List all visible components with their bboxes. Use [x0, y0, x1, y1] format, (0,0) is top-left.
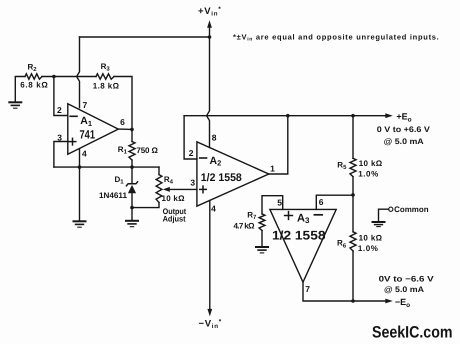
node R6/-Eo junction dot: [351, 299, 355, 303]
svg-text:*±Vin are equal and opposite u: *±Vin are equal and opposite unregulated…: [233, 32, 440, 42]
terminal Common circle: [389, 207, 393, 211]
svg-text:10 kΩ: 10 kΩ: [359, 233, 383, 242]
svg-text:SeekIC.com: SeekIC.com: [372, 324, 453, 342]
svg-text:−Eo: −Eo: [395, 297, 410, 309]
wire R7 bottom lead to ground: [261, 231, 263, 247]
node R5 top rail junction dot: [351, 114, 355, 118]
resistor R2: [25, 74, 42, 79]
resistor R6: [350, 232, 356, 251]
wire R1 bottom lead: [131, 160, 133, 167]
svg-text:R2: R2: [28, 62, 38, 73]
wire A1 bottom rail: [54, 166, 159, 168]
svg-text:R5: R5: [337, 161, 347, 172]
wire top rail from +Vin to A1 pin7 drop: [80, 36, 210, 38]
svg-text:A3: A3: [297, 212, 310, 225]
wire R2 left lead and drop to ground: [15, 77, 25, 102]
node D1/R4 bottom junction dot: [130, 206, 134, 210]
wire A2 feedback corner to pin 2: [184, 116, 197, 159]
ground below R7: [256, 247, 268, 253]
svg-text:3: 3: [57, 132, 62, 142]
wire R3 right lead to vertical: [114, 77, 132, 130]
node pin4 rail junction dot: [78, 165, 82, 169]
ground below A1 rail: [74, 221, 86, 227]
svg-text:741: 741: [80, 127, 96, 141]
svg-text:R4: R4: [164, 175, 174, 186]
svg-text:10 kΩ: 10 kΩ: [162, 194, 186, 203]
resistor R5: [350, 158, 356, 176]
node R5/R6/pin6 junction dot: [351, 193, 355, 197]
node rail/R1/D1 junction dot: [130, 165, 134, 169]
wire A1 output pin 6 to node: [118, 128, 132, 130]
wire +Eo output rail: [184, 115, 386, 117]
svg-text:4: 4: [211, 204, 216, 214]
svg-text:A1: A1: [80, 115, 92, 128]
terminal -Vin arrow: [207, 309, 212, 317]
wire Common to ground: [379, 209, 389, 221]
svg-text:Common: Common: [394, 205, 429, 214]
wire R2 to R3 segment: [42, 76, 96, 78]
resistor R3: [96, 74, 114, 79]
A3 plus sign: [285, 212, 293, 220]
wire A1 pin 4 vertical: [79, 149, 81, 167]
svg-text:1N4611: 1N4611: [99, 191, 128, 200]
node feedback/rail junction dot: [286, 114, 290, 118]
svg-text:Adjust: Adjust: [163, 215, 186, 224]
wire A1 inverting input pin 2: [54, 77, 68, 116]
svg-text:1.8 kΩ: 1.8 kΩ: [93, 82, 120, 91]
svg-text:6: 6: [120, 117, 125, 127]
wire R6 bottom lead: [352, 251, 354, 301]
resistor R7: [259, 214, 265, 231]
svg-text:R7: R7: [247, 210, 257, 221]
svg-text:1/2 1558: 1/2 1558: [201, 172, 242, 184]
svg-text:A2: A2: [210, 155, 222, 168]
svg-text:1/2 1558: 1/2 1558: [272, 228, 326, 242]
terminal +Eo arrow: [385, 113, 393, 118]
svg-text:+Vin*: +Vin*: [198, 6, 221, 18]
terminal +Vin arrow: [207, 20, 212, 37]
wire A3 output pin 7: [303, 282, 386, 301]
wire R4 bottom lead to D1 node: [132, 203, 159, 208]
svg-text:6.8 kΩ: 6.8 kΩ: [20, 81, 48, 90]
wire A2 pin 4 down to -Vin: [209, 200, 211, 309]
svg-text:−Vin*: −Vin*: [199, 318, 222, 330]
wire A2 output pin 1 feedback: [269, 116, 288, 174]
svg-text:2: 2: [57, 105, 62, 115]
svg-text:3: 3: [190, 177, 195, 187]
wire D1 cathode lead: [131, 167, 133, 183]
svg-text:R3: R3: [101, 62, 111, 73]
svg-text:@ 5.0 mA: @ 5.0 mA: [384, 137, 424, 146]
svg-text:@ 5.0 mA: @ 5.0 mA: [384, 285, 424, 294]
svg-text:R1: R1: [118, 145, 128, 156]
svg-text:1.0%: 1.0%: [358, 169, 378, 178]
ground below R2: [9, 102, 21, 108]
R4 wiper arrow: [163, 187, 170, 192]
svg-text:5: 5: [277, 198, 282, 208]
potentiometer R4: [156, 175, 162, 203]
svg-text:10 kΩ: 10 kΩ: [359, 159, 383, 168]
ground below Common: [373, 222, 385, 227]
wire R4 wiper to A2 pin 3: [166, 188, 197, 190]
terminal -Eo arrow: [385, 299, 393, 304]
svg-text:0 V to +6.6 V: 0 V to +6.6 V: [377, 125, 431, 134]
wire A3 pin 5 to R7: [262, 196, 283, 214]
svg-text:R6: R6: [337, 239, 347, 250]
svg-text:1.0%: 1.0%: [358, 244, 378, 253]
svg-text:7: 7: [305, 284, 310, 294]
op-amp A3 1/2 1558 triangle: [270, 209, 336, 282]
op-amp A2 1/2 1558 triangle: [197, 142, 269, 206]
A2 plus sign: [200, 186, 207, 193]
svg-text:2: 2: [189, 148, 194, 158]
node pin6/R3/R1 junction dot: [130, 128, 134, 132]
svg-text:750 Ω: 750 Ω: [136, 146, 158, 155]
wire A1 non-inverting input pin 3: [54, 142, 68, 168]
wire rail drop to ground: [79, 167, 81, 220]
node R2/R3/pin2 junction dot: [52, 75, 56, 79]
resistor R1: [129, 142, 135, 161]
A2 minus sign: [200, 157, 207, 159]
A3 minus sign: [314, 214, 322, 216]
wire R5 top lead: [352, 116, 354, 159]
wire R4 top lead from rail: [158, 167, 160, 175]
svg-text:8: 8: [212, 133, 217, 143]
wire R1 top lead: [131, 129, 133, 141]
A1 plus sign: [69, 138, 76, 145]
wire A3 pin 6 to divider node: [316, 195, 353, 209]
svg-text:7: 7: [83, 100, 88, 110]
svg-text:+Eo: +Eo: [396, 112, 411, 124]
wire A1 pin7 vertical with jog over R2/R3 line: [77, 37, 80, 108]
svg-text:4: 4: [82, 149, 87, 159]
wire +Vin vertical down to A2 pin8 with jog over +Eo rail: [207, 37, 210, 148]
node +Vin junction dot: [208, 35, 212, 39]
A1 minus sign: [70, 115, 77, 117]
diode D1 1N4611 zener: [126, 182, 137, 193]
wire R5 bottom lead to node: [352, 177, 354, 195]
svg-text:0V to −6.6 V: 0V to −6.6 V: [379, 275, 435, 284]
op-amp A1 741 triangle: [68, 104, 119, 155]
wire D1 anode lead: [131, 193, 133, 208]
svg-text:6: 6: [319, 197, 324, 207]
ground below D1: [126, 221, 138, 227]
svg-text:1: 1: [270, 164, 275, 174]
svg-text:4.7 kΩ: 4.7 kΩ: [234, 222, 256, 231]
wire D1 node drop to ground: [131, 208, 133, 220]
wire R6 top lead: [352, 195, 354, 232]
svg-text:D1: D1: [115, 175, 125, 186]
